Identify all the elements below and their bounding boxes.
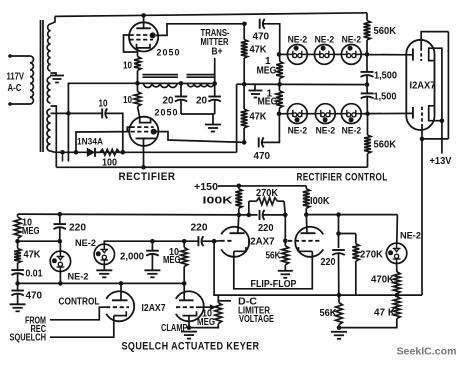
svg-text:CONTROL: CONTROL: [59, 297, 100, 308]
node tap junction: [66, 111, 71, 116]
svg-text:FLIP-FLOP: FLIP-FLOP: [251, 279, 297, 290]
resistor 1MEG lower: [276, 91, 283, 109]
resistor 100K left: [238, 186, 240, 189]
wire 47K upper top: [243, 24, 245, 40]
svg-text:20: 20: [163, 96, 174, 107]
svg-text:47K: 47K: [250, 45, 268, 56]
node V1 plate to top rail: [141, 13, 146, 18]
wire keyer top rail: [18, 213, 239, 216]
tube V5 grid: [176, 306, 196, 308]
wire V2 cathode lead: [143, 138, 145, 167]
node neon row1 left: [277, 52, 282, 57]
tube V3 upper grid: [420, 47, 422, 61]
wire row1 to tube plate: [367, 54, 413, 56]
tube V1 grid rows: [130, 34, 157, 36]
wire V1 cathode lead: [137, 48, 139, 57]
wire V1 grid takeoff to B+ line: [156, 24, 245, 36]
wire cap 10 right down to diode output: [106, 113, 123, 152]
capacitor 1500 upper: [361, 71, 374, 73]
wire 10meg2 leads: [183, 241, 185, 247]
wire neon row2 links: [279, 113, 287, 115]
choke L2 core: [187, 74, 215, 76]
wire ne2 right bottom: [103, 265, 105, 270]
wire neon7 drop: [396, 215, 399, 244]
wire rail to resistor 10 lower: [137, 83, 139, 91]
node 56K3 bottom: [337, 325, 342, 330]
wire 560K upper bottom: [366, 40, 368, 54]
wire cap2000 leads: [151, 241, 153, 251]
svg-text:I00K: I00K: [203, 195, 234, 206]
svg-text:1N34A: 1N34A: [77, 137, 103, 148]
diode D1 1N34A: [87, 148, 95, 157]
capacitor 470 keyer: [11, 290, 24, 292]
node 1meg mid: [277, 82, 282, 87]
svg-text:MEG: MEG: [22, 226, 40, 237]
svg-text:220: 220: [69, 223, 86, 234]
svg-text:560K: 560K: [374, 26, 397, 37]
choke L1 winding: [144, 83, 178, 87]
wire cap bottoms: [181, 113, 215, 115]
node mid rail right: [58, 239, 63, 244]
tube V2 2050 lower rectifier envelope: [129, 117, 158, 146]
neon lamp NE-2 row2 #3: [341, 104, 361, 124]
svg-text:1,500: 1,500: [374, 92, 397, 103]
tube V3 lower plate: [412, 107, 414, 119]
svg-text:NE-2: NE-2: [342, 125, 362, 136]
wire cap220b bottom: [338, 254, 340, 296]
resistor 10 ohm upper: [134, 56, 141, 70]
wire cap470k leads: [17, 283, 19, 290]
wire secondary bottom rail: [55, 151, 237, 153]
node 56K3 top: [337, 293, 342, 298]
svg-text:560K: 560K: [374, 140, 397, 151]
wire grid feedback drop: [421, 139, 423, 295]
capacitor 0.01: [11, 269, 24, 271]
svg-text:1,500: 1,500: [374, 71, 397, 82]
wire cap1500a leads: [366, 54, 368, 72]
capacitor 2000: [146, 250, 159, 252]
ground limiter: [331, 331, 347, 333]
tube V6a FF left triode envelope: [221, 227, 249, 257]
neon lamp NE-2 row1 #1: [287, 45, 307, 65]
capacitor 220 coupling keyer: [197, 236, 199, 246]
wire pot bottom to cathode: [189, 324, 218, 328]
wire row2 to tube plate: [368, 112, 414, 114]
node row1 right: [365, 52, 370, 57]
resistor 560K upper: [364, 21, 371, 41]
resistor 470K: [393, 272, 400, 294]
wire primary top lead: [10, 55, 30, 57]
capacitor 1500 lower: [361, 92, 374, 94]
wire 100k2 bottom: [305, 208, 307, 214]
wire 10meg1 top: [17, 214, 19, 217]
tube V6a plate: [230, 232, 245, 234]
wire keyer mid rail: [18, 240, 60, 242]
resistor 47K limiter: [393, 297, 400, 319]
capacitor 10 coupling: [101, 108, 103, 118]
resistor 10MEG second: [181, 248, 188, 267]
wire coupling to right grid: [284, 215, 286, 241]
svg-text:56K: 56K: [320, 308, 338, 319]
wire V5 cathode lead: [188, 316, 190, 328]
tube V2 grid rows: [131, 126, 154, 128]
svg-text:2,000: 2,000: [120, 252, 144, 263]
wire V5 plate lead: [183, 283, 185, 300]
node cap220b top: [336, 212, 341, 217]
wire 1meg lower leads: [278, 84, 280, 90]
node V1 grid terminal: [150, 32, 156, 38]
node clamp cathode: [187, 325, 192, 330]
resistor 270K limiter: [355, 234, 357, 244]
wire limiter voltage rail: [214, 241, 422, 295]
resistor 56K FF: [282, 246, 289, 265]
resistor 10MEG first: [14, 217, 21, 239]
node choke mid: [179, 81, 184, 86]
wire V1 plate lead: [143, 15, 145, 28]
wire cap1500b leads: [366, 85, 368, 94]
wire filter ground stub: [212, 114, 214, 124]
svg-text:56K: 56K: [266, 251, 282, 262]
wire V6a plate lead: [238, 215, 239, 233]
node control rail right: [365, 82, 370, 87]
tube V4 control triode envelope: [106, 291, 134, 321]
node row2 right: [365, 111, 370, 116]
svg-text:NE-2: NE-2: [316, 125, 336, 136]
wire cap20b bottom: [214, 100, 216, 114]
svg-text:47 K: 47 K: [374, 307, 396, 318]
tube V2 cathode: [136, 137, 158, 139]
wire V2 grid takeoff: [157, 132, 245, 143]
wire control common rail: [237, 83, 367, 85]
svg-text:10: 10: [123, 95, 132, 106]
tube V2 shield tie: [127, 127, 130, 132]
svg-text:SeekIC.com: SeekIC.com: [397, 347, 457, 358]
wire FF coupling left segment: [239, 214, 258, 216]
wire 47K lower top: [243, 84, 245, 109]
wire pot top to limiter rail: [217, 295, 219, 302]
svg-text:VOLTAGE: VOLTAGE: [239, 314, 274, 325]
node V2 cathode on bias rail: [141, 165, 146, 170]
resistor 100K right: [305, 186, 307, 189]
node secondary bottom a: [60, 150, 65, 155]
tube V3 lower cathode: [429, 106, 434, 121]
wire cap.01 bottom: [17, 274, 19, 284]
svg-text:10: 10: [123, 61, 132, 72]
wire +13V lead: [441, 121, 443, 154]
node diode output: [121, 150, 126, 155]
wire 47k keyer leads: [17, 241, 19, 248]
wire 560K lower top: [367, 114, 369, 135]
wire cap 10 left: [68, 112, 102, 114]
ground at transformer center tap: [50, 75, 64, 77]
neon lamp NE-2 limiter: [386, 243, 406, 263]
svg-text:470K: 470K: [371, 275, 395, 286]
transformer T1 secondary winding upper: [47, 24, 50, 71]
svg-text:20: 20: [196, 96, 207, 107]
tube V4 cathode: [114, 311, 127, 315]
wire V6a grid solid: [214, 240, 220, 242]
wire V3 upper grid riser: [421, 32, 448, 48]
node coupling left: [247, 213, 252, 218]
node V5 plate: [182, 281, 187, 286]
wire secondary center tap: [51, 73, 57, 75]
wire to filter rail: [137, 71, 139, 84]
tube V6b FF right triode envelope: [295, 227, 323, 257]
wire rectifier control ground riser: [236, 84, 238, 152]
node FF left plate: [237, 213, 242, 218]
neon lamp NE-2 row1 #3: [341, 45, 361, 65]
svg-text:A-C: A-C: [8, 83, 23, 94]
svg-text:MEG: MEG: [257, 66, 277, 77]
wire 47K upper bottom: [243, 58, 245, 84]
svg-text:470: 470: [26, 291, 43, 302]
node coupling bottom: [242, 140, 247, 145]
node filter left: [135, 81, 140, 86]
svg-text:MEG: MEG: [163, 255, 181, 266]
node 100K1 top: [237, 184, 242, 189]
wire secondary bottom lead: [51, 151, 56, 152]
tube V5 clamp triode envelope: [176, 291, 204, 321]
neon lamp NE-2 row2 #1: [287, 104, 307, 124]
ground control rail: [249, 90, 263, 92]
svg-text:220: 220: [321, 257, 336, 268]
wire cap470a right: [263, 24, 279, 55]
svg-text:MEG: MEG: [258, 97, 278, 108]
wire cap220a leads: [59, 214, 61, 224]
node FF right plate: [304, 212, 309, 217]
capacitor 470 lower: [258, 137, 260, 147]
wire top rail: [55, 13, 367, 17]
node 10meg2 top: [182, 239, 187, 244]
capacitor 220 FF coupling: [259, 210, 261, 220]
tube V3 upper plate: [412, 48, 414, 60]
tube V4 grid: [106, 306, 129, 308]
capacitor 20 first: [175, 96, 187, 98]
wire 56k ff leads: [284, 241, 286, 246]
label D-C dash: [219, 300, 231, 302]
tube V4 plate: [112, 299, 128, 301]
choke L2 winding: [187, 84, 214, 87]
svg-text:270K: 270K: [256, 188, 279, 199]
node mid rail left: [15, 239, 20, 244]
choke L1 core: [143, 74, 179, 76]
tube V3 12AX7 envelope: [406, 40, 434, 130]
wire 1meg upper leads: [279, 54, 281, 61]
node neon row2 left: [277, 112, 282, 117]
svg-text:RECTIFIER: RECTIFIER: [119, 171, 176, 183]
svg-text:2050: 2050: [155, 108, 179, 118]
svg-text:RECTIFIER CONTROL: RECTIFIER CONTROL: [297, 172, 388, 184]
wire cap20a bottom: [180, 100, 182, 114]
svg-text:470: 470: [253, 32, 270, 43]
node ne2 left bottom: [58, 281, 63, 286]
svg-text:MEG: MEG: [197, 317, 215, 328]
tube V3 upper cathode: [429, 48, 434, 60]
svg-text:I00K: I00K: [310, 196, 330, 207]
resistor 270K coupling: [249, 200, 257, 202]
wire branch to 270K2: [339, 233, 356, 235]
wire FF coupling right segment: [263, 214, 285, 216]
svg-text:NE-2: NE-2: [315, 34, 335, 45]
svg-text:+13V: +13V: [430, 156, 452, 167]
wire cathode bias rail: [56, 166, 367, 168]
node V4 plate: [119, 281, 124, 286]
wire filament stub: [62, 152, 64, 161]
tube V6b cathode: [299, 247, 313, 251]
svg-text:SQUELCH: SQUELCH: [10, 332, 47, 343]
tube V6a grid: [221, 240, 235, 242]
node cap220a top: [58, 212, 63, 217]
resistor 47K lower: [241, 109, 248, 128]
potentiometer 10MEG clamp: [215, 303, 222, 324]
svg-text:270K: 270K: [360, 249, 384, 260]
wire 270k2 bottom: [355, 261, 357, 295]
transformer T1 primary winding: [30, 56, 33, 104]
svg-text:NE-2: NE-2: [288, 34, 308, 45]
tube V1 shield-cathode tie: [124, 35, 138, 52]
tube V5 cathode: [183, 311, 197, 315]
wire cap220b riser: [338, 215, 340, 248]
node FF right grid: [283, 239, 288, 244]
wire V4 grid lead to squelch input: [50, 307, 106, 320]
resistor 56K limiter: [336, 303, 343, 325]
ground ne2 right: [96, 269, 112, 271]
wire V4 cathode lead: [50, 316, 114, 338]
wire FF right plate rail: [306, 214, 397, 216]
resistor 10 ohm lower: [134, 92, 141, 107]
tube V6b plate: [301, 232, 316, 234]
wire secondary third tap: [51, 112, 69, 114]
tube V6b grid: [288, 240, 322, 242]
wire grids tie line: [447, 32, 449, 139]
capacitor 20 second: [208, 96, 221, 98]
transformer T1 secondary winding middle: [47, 77, 50, 103]
node V2 grid terminal: [151, 129, 157, 135]
neon lamp NE-2 keyer right: [94, 244, 114, 264]
wire 100k1 bottom: [238, 208, 240, 215]
wire ne2 left leads: [59, 241, 61, 251]
wire ground stub control: [254, 84, 256, 90]
resistor 560K lower: [364, 135, 371, 154]
node filter output B+: [212, 81, 217, 86]
wire primary bottom lead: [10, 103, 30, 105]
resistor 47K upper: [241, 40, 248, 59]
svg-text:NE-2: NE-2: [288, 125, 308, 136]
svg-text:NE-2: NE-2: [68, 271, 89, 282]
ground cap2000: [144, 269, 160, 271]
wire cap220 coupling right: [202, 240, 214, 242]
tube V1 2050 upper rectifier envelope: [129, 22, 158, 51]
tube V6a cathode: [234, 247, 246, 251]
wire V4 plate lead: [120, 283, 122, 300]
node grid junction: [420, 137, 425, 142]
svg-text:NE-2: NE-2: [400, 231, 421, 242]
wire V2 control grid from diode node: [76, 132, 130, 153]
wire 47K lower bottom: [243, 128, 245, 142]
capacitor 220 input: [54, 223, 67, 225]
wire V3 lower grid drop: [422, 126, 448, 139]
node 47K chain mid: [242, 82, 247, 87]
svg-text:I2AX7: I2AX7: [410, 81, 436, 92]
node cathodes tie: [440, 118, 445, 123]
svg-text:B+: B+: [212, 47, 223, 58]
tube V2 plate cup: [138, 107, 140, 118]
wire V3 lower cathode lead: [434, 120, 442, 122]
wire 56k3 leads: [338, 295, 340, 303]
tube V1 plate: [136, 27, 151, 29]
ground cap470k: [10, 303, 26, 305]
tube V1 cathode: [137, 44, 151, 48]
svg-text:CLAMP: CLAMP: [161, 323, 188, 334]
capacitor 220 limiter: [332, 249, 345, 251]
svg-text:220: 220: [258, 223, 274, 234]
resistor 100: [95, 151, 100, 153]
svg-text:I2AX7: I2AX7: [248, 236, 275, 247]
wire V6b plate lead: [305, 215, 308, 234]
wire choke junction: [138, 82, 215, 84]
ground 56K FF: [278, 270, 293, 272]
wire cap20a top: [180, 83, 182, 96]
wire cap20b top: [214, 84, 216, 97]
svg-text:2050: 2050: [157, 48, 181, 58]
svg-text:470: 470: [254, 151, 271, 162]
wire secondary top lead to top rail: [51, 16, 56, 24]
svg-text:117V: 117V: [7, 72, 25, 83]
svg-text:220: 220: [191, 223, 208, 234]
wire 47k3 bottom: [339, 319, 397, 328]
resistor 47K keyer: [14, 249, 21, 264]
wire neon7 bottom: [396, 264, 398, 272]
node 470K bottom: [395, 293, 400, 298]
neon lamp NE-2 keyer left: [50, 251, 70, 271]
node lower rail left: [15, 281, 20, 286]
node diode anode: [74, 150, 79, 155]
svg-text:10: 10: [99, 99, 108, 110]
wire keyer lower rail: [18, 282, 185, 284]
tube V3 lower grid: [421, 107, 423, 126]
capacitor 470 upper: [259, 19, 261, 29]
wire FF cathodes tie: [234, 251, 312, 288]
transformer T1 core: [40, 20, 42, 152]
wire 270K risers: [248, 201, 250, 215]
neon lamp NE-2 row2 #2: [315, 104, 335, 124]
wire cap470b right: [262, 114, 279, 143]
svg-text:47K: 47K: [250, 112, 268, 123]
node B+ coupling top: [242, 22, 247, 27]
transformer T1 secondary winding lower: [47, 109, 51, 151]
svg-text:0.01: 0.01: [26, 269, 43, 280]
svg-text:NE-2: NE-2: [342, 34, 362, 45]
node cap2000 top: [150, 239, 155, 244]
wire V5 grid lead with wiper arrow: [196, 306, 211, 308]
svg-text:NE-2: NE-2: [75, 238, 96, 249]
wire ne2 right top: [104, 241, 198, 244]
wire plus150 rail: [218, 185, 306, 187]
wire filter return left: [68, 83, 137, 161]
node FF grid left feed: [212, 239, 217, 244]
svg-text:I2AX7: I2AX7: [142, 303, 166, 314]
wire secondary second tap to bias rail: [51, 106, 57, 167]
wire top rail corner to 560K: [366, 13, 368, 21]
svg-text:47K: 47K: [24, 250, 42, 261]
tube V5 plate: [179, 299, 194, 301]
svg-text:+150: +150: [194, 182, 218, 193]
ground clamp: [181, 331, 197, 333]
neon lamp NE-2 row1 #2: [314, 45, 334, 65]
node 270K2 branch: [336, 231, 341, 236]
node coupling right: [283, 213, 288, 218]
resistor 1MEG upper: [276, 61, 283, 78]
